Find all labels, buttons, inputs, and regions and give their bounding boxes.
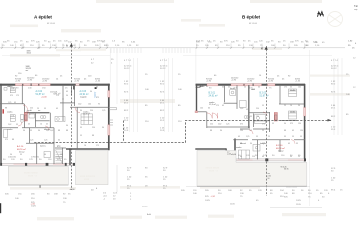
svg-text:55: 55 bbox=[292, 136, 294, 138]
svg-text:95: 95 bbox=[272, 123, 274, 125]
svg-text:210: 210 bbox=[210, 124, 213, 126]
svg-text:A 2.10: A 2.10 bbox=[17, 145, 24, 148]
svg-text:szoba: szoba bbox=[7, 112, 13, 114]
svg-text:175: 175 bbox=[216, 105, 219, 107]
plan B porch walls bbox=[195, 112, 250, 128]
svg-text:24,91 m²: 24,91 m² bbox=[209, 95, 218, 98]
bathroom fixtures B bbox=[230, 90, 271, 181]
svg-text:terasz: terasz bbox=[278, 149, 283, 152]
svg-text:+0,90: +0,90 bbox=[206, 81, 212, 83]
dashed vertical section line A bbox=[71, 43, 73, 190]
dimension extension ticks A bbox=[2, 44, 107, 49]
svg-text:14: 14 bbox=[290, 105, 292, 107]
svg-text:95: 95 bbox=[80, 127, 82, 129]
svg-text:Tár: Tár bbox=[354, 4, 358, 8]
svg-text:45: 45 bbox=[28, 124, 30, 126]
teal label B 2.02 bbox=[260, 93, 269, 98]
svg-text:60: 60 bbox=[222, 87, 224, 89]
svg-text:45: 45 bbox=[56, 108, 58, 110]
svg-text:14: 14 bbox=[40, 124, 42, 126]
long dimension line bbox=[0, 47, 345, 49]
svg-text:95: 95 bbox=[250, 116, 252, 118]
plan A lower-right railing wall bbox=[66, 148, 109, 150]
svg-text:95: 95 bbox=[16, 124, 18, 126]
svg-text:M 1:100: M 1:100 bbox=[249, 23, 258, 25]
plan B railing jog bbox=[226, 148, 235, 154]
svg-text:±0,00: ±0,00 bbox=[231, 154, 237, 156]
bathroom fixtures A bbox=[21, 114, 66, 122]
small room names A bbox=[7, 86, 90, 148]
svg-text:210: 210 bbox=[92, 127, 95, 129]
svg-text:375: 375 bbox=[240, 124, 243, 126]
svg-text:88: 88 bbox=[5, 108, 7, 110]
dim text row above glass wall A bbox=[3, 157, 67, 162]
wardrobe left room A bbox=[4, 130, 8, 138]
svg-text:240/240: 240/240 bbox=[8, 157, 17, 159]
svg-text:25: 25 bbox=[262, 130, 264, 132]
plan B top wall bbox=[196, 84, 306, 86]
svg-text:95: 95 bbox=[98, 104, 100, 106]
svg-text:1025: 1025 bbox=[205, 200, 211, 202]
svg-text:210: 210 bbox=[50, 92, 53, 94]
teal label A 2.03 bbox=[80, 90, 89, 99]
dimension row fillers A bbox=[7, 40, 101, 42]
svg-text:1,25: 1,25 bbox=[246, 136, 249, 138]
teal label A 2.02 bbox=[36, 90, 48, 99]
section marker top of dashed A bbox=[66, 44, 73, 48]
svg-text:étkező: étkező bbox=[240, 142, 247, 145]
faint line under right table bbox=[270, 207, 322, 209]
dimension row fillers B bbox=[201, 40, 325, 44]
plan A top wall bbox=[0, 84, 110, 86]
basins A middle bbox=[40, 116, 46, 119]
svg-text:1025: 1025 bbox=[31, 205, 37, 207]
svg-text:175: 175 bbox=[56, 95, 59, 97]
svg-text:51,87 m²: 51,87 m² bbox=[260, 95, 269, 98]
svg-text:+0,00: +0,00 bbox=[41, 97, 47, 99]
svg-text:55: 55 bbox=[290, 87, 292, 89]
dimension extension ticks B bbox=[197, 44, 305, 49]
svg-text:rajz: rajz bbox=[354, 8, 358, 11]
svg-text:1,25: 1,25 bbox=[30, 140, 33, 142]
north arrow bbox=[317, 12, 324, 17]
svg-text:xxxxx: xxxxx bbox=[142, 206, 148, 208]
svg-text:A-A: A-A bbox=[147, 213, 151, 216]
svg-text:30: 30 bbox=[250, 143, 252, 145]
extra dim texts above mid area bbox=[101, 40, 357, 49]
svg-text:95: 95 bbox=[20, 154, 22, 156]
dim marks under top wall B (sills) bbox=[209, 87, 272, 89]
svg-text:A 2.03: A 2.03 bbox=[80, 90, 87, 93]
wall stub below A top wall bbox=[73, 86, 75, 90]
bed top-right B bbox=[289, 89, 297, 97]
terrace bottom extension line bbox=[186, 186, 310, 188]
svg-text:90: 90 bbox=[268, 178, 270, 180]
svg-text:+0,90: +0,90 bbox=[231, 80, 237, 82]
svg-text:120: 120 bbox=[240, 130, 243, 132]
svg-text:45: 45 bbox=[46, 124, 48, 126]
svg-text:+1,35: +1,35 bbox=[295, 81, 301, 83]
svg-text:+0,90: +0,90 bbox=[74, 81, 80, 83]
terrace B (L-shaped, left and below rooms) bbox=[197, 151, 307, 187]
svg-text:55: 55 bbox=[262, 105, 264, 107]
section mark on terrace B bbox=[268, 173, 272, 180]
svg-text:B 2.01: B 2.01 bbox=[209, 93, 216, 95]
svg-text:±0,00: ±0,00 bbox=[70, 189, 76, 191]
svg-text:M 1:100: M 1:100 bbox=[47, 23, 56, 25]
svg-text:30 12: 30 12 bbox=[124, 68, 130, 70]
right edge faint marks bbox=[353, 58, 356, 90]
svg-text:175: 175 bbox=[284, 87, 287, 89]
plan A bottom glass wall bbox=[2, 163, 73, 165]
survey stamp 2 bbox=[26, 66, 32, 72]
bed mid-right B bbox=[289, 111, 297, 119]
interior walls plan B bbox=[224, 85, 305, 160]
svg-text:210: 210 bbox=[256, 108, 259, 110]
plan A right wall windows bbox=[108, 91, 110, 136]
svg-text:88: 88 bbox=[92, 135, 94, 137]
plan B right wall window bbox=[304, 108, 306, 117]
svg-text:120: 120 bbox=[88, 104, 91, 106]
svg-text:51,87 m²: 51,87 m² bbox=[36, 93, 45, 96]
svg-text:4 7 7 4: 4 7 7 4 bbox=[331, 60, 338, 62]
section marker top of dashed B bbox=[261, 47, 268, 51]
bed right column A bbox=[81, 114, 93, 125]
svg-text:+2,62: +2,62 bbox=[31, 204, 36, 206]
red label B 2.10 bbox=[276, 145, 285, 152]
svg-text:30 12: 30 12 bbox=[160, 68, 166, 70]
svg-text:88: 88 bbox=[284, 130, 286, 132]
svg-text:2,62: 2,62 bbox=[240, 108, 243, 110]
red level specks bbox=[31, 196, 216, 205]
svg-text:A 2.02: A 2.02 bbox=[36, 90, 43, 93]
micro dim specks plan B bbox=[200, 86, 303, 158]
svg-text:60: 60 bbox=[44, 154, 46, 156]
extension lines above plan corners bbox=[110, 49, 196, 105]
svg-text:90: 90 bbox=[66, 95, 68, 97]
plan A right wall bbox=[108, 84, 110, 151]
svg-text:120: 120 bbox=[298, 87, 301, 89]
svg-text:30: 30 bbox=[102, 127, 104, 129]
svg-text:A épület: A épület bbox=[34, 15, 52, 20]
plan A bottom glass wall posts bbox=[0, 163, 75, 166]
svg-text:30: 30 bbox=[284, 123, 286, 125]
interior walls plan A bbox=[0, 85, 109, 164]
svg-text:B épület: B épület bbox=[242, 15, 261, 20]
dimension text row 1 above plan A bbox=[3, 40, 105, 43]
svg-text:175: 175 bbox=[262, 124, 265, 126]
svg-text:95: 95 bbox=[284, 136, 286, 138]
svg-text:szoba: szoba bbox=[236, 147, 242, 149]
svg-text:45: 45 bbox=[206, 86, 208, 88]
svg-text:1,25: 1,25 bbox=[102, 110, 105, 112]
svg-text:210: 210 bbox=[30, 108, 33, 110]
svg-text:45: 45 bbox=[288, 143, 290, 145]
svg-text:175: 175 bbox=[96, 145, 99, 147]
svg-text:120: 120 bbox=[200, 108, 203, 110]
plan B bottom glass wall bbox=[236, 159, 305, 161]
svg-text:88: 88 bbox=[12, 139, 14, 141]
plan B right wall bbox=[304, 84, 306, 162]
left edge dark bar bbox=[0, 203, 1, 213]
svg-text:1025: 1025 bbox=[296, 200, 302, 202]
title B épület bbox=[242, 15, 261, 25]
micro dim specks plan A bbox=[5, 86, 105, 156]
svg-text:2,62: 2,62 bbox=[8, 124, 11, 126]
svg-text:xxxx - x: xxxx - x bbox=[28, 175, 37, 178]
svg-text:60: 60 bbox=[208, 108, 210, 110]
svg-text:kamra: kamra bbox=[40, 146, 46, 148]
chain numbers mid columns bbox=[124, 60, 182, 132]
svg-text:375: 375 bbox=[5, 139, 8, 141]
bottom dim rows under plan B bbox=[181, 190, 304, 206]
svg-text:4 7 7 4: 4 7 7 4 bbox=[160, 60, 167, 62]
label band at B terrace bottom bbox=[286, 186, 297, 188]
plan A left wall bbox=[0, 84, 2, 166]
svg-text:88: 88 bbox=[66, 130, 68, 132]
svg-text:12,4 m²: 12,4 m² bbox=[209, 103, 216, 106]
tick slashes on dimension line bbox=[1, 47, 305, 49]
dashed boundary polyline lower bbox=[34, 121, 331, 143]
plan B porch red mark bbox=[195, 111, 198, 113]
svg-text:60: 60 bbox=[258, 87, 260, 89]
svg-text:+0,90: +0,90 bbox=[15, 81, 21, 83]
svg-text:1105: 1105 bbox=[296, 204, 301, 206]
plan B left wall bbox=[196, 84, 198, 113]
plan B top-left corner bracket bbox=[196, 86, 201, 87]
light blue door swing A right column bbox=[94, 92, 96, 98]
bottom dim rows right section bbox=[284, 190, 330, 206]
dim text row above glass wall B bbox=[238, 155, 301, 157]
svg-text:B 2.02: B 2.02 bbox=[260, 93, 267, 95]
svg-text:szoba: szoba bbox=[7, 129, 13, 131]
svg-text:55: 55 bbox=[256, 136, 258, 138]
svg-text:30: 30 bbox=[38, 130, 40, 132]
svg-text:szv: szv bbox=[26, 70, 29, 72]
title A épület bbox=[34, 15, 56, 25]
red chimney plan A bbox=[3, 109, 4, 113]
svg-text:+2,62: +2,62 bbox=[211, 196, 216, 198]
svg-text:45: 45 bbox=[66, 91, 68, 93]
svg-text:2,62: 2,62 bbox=[218, 124, 221, 126]
svg-text:14: 14 bbox=[84, 145, 86, 147]
svg-text:A: A bbox=[66, 44, 68, 47]
plan B bottom glass wall posts bbox=[234, 158, 306, 161]
svg-text:xxxx - x: xxxx - x bbox=[209, 170, 218, 173]
svg-text:terasz: terasz bbox=[19, 150, 24, 153]
svg-text:90: 90 bbox=[8, 86, 10, 88]
svg-text:95: 95 bbox=[296, 143, 298, 145]
bottom dim rows under plan A bbox=[5, 194, 71, 208]
terrace A below-left bbox=[8, 167, 68, 186]
dim marks under top wall A (sills) bbox=[16, 87, 68, 89]
svg-text:+0,90: +0,90 bbox=[268, 81, 274, 83]
svg-text:2,62: 2,62 bbox=[46, 130, 49, 132]
svg-text:25: 25 bbox=[37, 108, 39, 110]
svg-text:2,62: 2,62 bbox=[78, 104, 81, 106]
svg-text:A: A bbox=[261, 47, 263, 50]
svg-text:88: 88 bbox=[58, 130, 60, 132]
small center bottom text bbox=[147, 213, 151, 216]
svg-text:45: 45 bbox=[14, 102, 16, 104]
dimension text row 2 above plan A bbox=[2, 45, 109, 47]
bed room1 A bbox=[4, 88, 15, 93]
dining table B living bbox=[253, 145, 260, 152]
svg-text:+0,90: +0,90 bbox=[42, 81, 48, 83]
chain numbers below mid columns bbox=[127, 168, 168, 191]
stairs / fixtures bottom-middle A bbox=[56, 150, 63, 163]
svg-text:nappali: nappali bbox=[80, 97, 87, 99]
svg-text:90: 90 bbox=[298, 105, 300, 107]
svg-text:1105: 1105 bbox=[230, 203, 235, 205]
svg-text:90: 90 bbox=[23, 130, 25, 132]
svg-text:55: 55 bbox=[44, 108, 46, 110]
svg-text:60: 60 bbox=[58, 140, 60, 142]
svg-text:120: 120 bbox=[298, 123, 301, 125]
dimension text row 2 above plan B bbox=[196, 45, 308, 47]
svg-text:178/240: 178/240 bbox=[31, 157, 40, 159]
svg-text:szoba: szoba bbox=[199, 86, 205, 88]
svg-text:36 35: 36 35 bbox=[284, 169, 289, 171]
watermark logo circle top right bbox=[328, 12, 343, 27]
window header labels above wall A bbox=[15, 73, 101, 82]
svg-text:1,25: 1,25 bbox=[226, 124, 229, 126]
comb ticks below long line, between plans bbox=[111, 48, 190, 53]
door swings (red) plan A bbox=[18, 105, 80, 130]
dark level mark near A terrace corner bbox=[40, 185, 76, 191]
svg-text:szoba: szoba bbox=[290, 90, 296, 92]
svg-text:wc: wc bbox=[38, 110, 40, 112]
dashed line arrowhead bbox=[328, 119, 332, 122]
dark level mark near B terrace bbox=[231, 154, 237, 156]
dimension text row 1 above plan B bbox=[196, 40, 304, 43]
dark hatch dot A right column bbox=[95, 87, 97, 89]
svg-text:163,2: 163,2 bbox=[27, 52, 32, 54]
svg-text:210: 210 bbox=[90, 110, 93, 112]
svg-text:55: 55 bbox=[244, 87, 246, 89]
small top chain numbers near A right corner bbox=[91, 59, 114, 65]
svg-text:45: 45 bbox=[292, 130, 294, 132]
svg-text:30 12: 30 12 bbox=[331, 68, 337, 70]
small room names B bbox=[199, 86, 296, 172]
vertical line bottom center-left bbox=[116, 165, 118, 192]
dark cluster above B terrace corner bbox=[281, 167, 289, 171]
svg-text:375: 375 bbox=[290, 123, 293, 125]
basins B middle bbox=[244, 116, 250, 119]
svg-text:55: 55 bbox=[80, 135, 82, 137]
svg-text:24,91 m²: 24,91 m² bbox=[80, 93, 89, 96]
svg-text:+0,90: +0,90 bbox=[27, 80, 33, 82]
svg-text:375: 375 bbox=[96, 97, 99, 99]
window header labels above wall B bbox=[206, 75, 301, 83]
svg-text:120: 120 bbox=[300, 130, 303, 132]
dashed vertical section line B bbox=[266, 46, 268, 196]
small table bottom center-left bbox=[91, 188, 148, 208]
plan B terrace railing wall bbox=[195, 148, 226, 150]
svg-text:55: 55 bbox=[246, 109, 248, 111]
survey stamp 1 bbox=[27, 51, 32, 55]
svg-text:+0,90: +0,90 bbox=[247, 81, 253, 83]
plan A jog wall x70 bbox=[69, 148, 71, 165]
svg-text:30: 30 bbox=[66, 125, 68, 127]
plan B top wall windows bbox=[207, 83, 275, 86]
red door B bbox=[274, 113, 277, 122]
door swings (red) plan B bbox=[207, 112, 295, 144]
svg-text:4 7 7 4: 4 7 7 4 bbox=[124, 60, 131, 62]
balcony right of plan A bbox=[109, 108, 117, 126]
svg-text:gép.: gép. bbox=[57, 146, 61, 148]
plan A top wall windows bbox=[15, 83, 79, 86]
svg-text:12,4 m²: 12,4 m² bbox=[83, 113, 90, 116]
svg-text:30: 30 bbox=[220, 130, 222, 132]
bed room2 A (lower-left) bbox=[10, 115, 15, 122]
svg-text:45: 45 bbox=[238, 136, 240, 138]
svg-text:25: 25 bbox=[268, 136, 270, 138]
svg-text:xxxx: xxxx bbox=[84, 178, 90, 181]
svg-text:szoba: szoba bbox=[290, 112, 296, 114]
svg-text:25: 25 bbox=[284, 105, 286, 107]
svg-text:55: 55 bbox=[300, 136, 302, 138]
svg-text:1,25: 1,25 bbox=[44, 140, 47, 142]
table lower-left room A bbox=[44, 152, 51, 158]
svg-text:88: 88 bbox=[210, 130, 212, 132]
svg-text:116/240: 116/240 bbox=[55, 157, 64, 159]
svg-text:55: 55 bbox=[30, 130, 32, 132]
svg-text:30: 30 bbox=[80, 110, 82, 112]
svg-text:375: 375 bbox=[10, 95, 13, 97]
terrace A bottom edge bbox=[8, 184, 68, 186]
red label A 2.10 bbox=[17, 145, 26, 153]
svg-text:30: 30 bbox=[90, 91, 92, 93]
terrace B bottom edge bbox=[197, 185, 307, 187]
slab A right-bottom bbox=[76, 151, 109, 185]
red door A middle bbox=[24, 113, 27, 122]
teal label B 2.01 bbox=[209, 93, 218, 107]
svg-text:2,62: 2,62 bbox=[50, 130, 53, 132]
svg-text:1,25: 1,25 bbox=[8, 102, 11, 104]
plan B room-block left wall bbox=[234, 139, 236, 162]
svg-text:175: 175 bbox=[16, 95, 19, 97]
svg-text:+1,35: +1,35 bbox=[95, 81, 101, 83]
bed bottom-left-of-right B bbox=[239, 150, 250, 159]
svg-text:B 2.10: B 2.10 bbox=[276, 145, 283, 147]
tiny marks at B terrace inner corner bbox=[227, 152, 231, 156]
top-right corner text fragment bbox=[354, 4, 358, 11]
svg-text:45: 45 bbox=[222, 105, 224, 107]
